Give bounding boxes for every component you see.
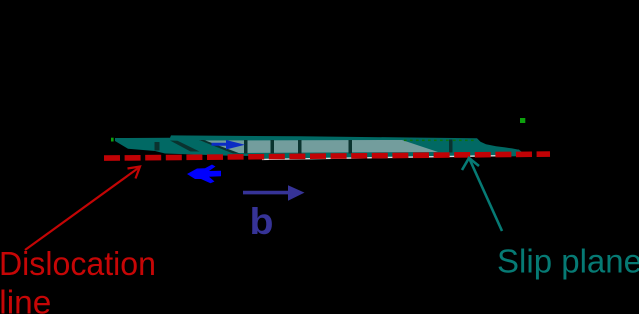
blue arrow on slip surface	[212, 140, 246, 150]
green marker square left	[111, 138, 114, 142]
small blue scribble arrow (points left)	[187, 165, 221, 184]
green marker dot upper right	[520, 118, 525, 123]
green dotted top edge	[404, 140, 474, 142]
svg-text:b: b	[250, 201, 274, 242]
plane separator 1	[244, 140, 248, 154]
plane separator 4	[349, 140, 353, 154]
plane separator 5	[449, 140, 453, 153]
slip plane dashed red line	[104, 154, 550, 158]
Burgers vector arrow	[243, 185, 305, 201]
slipped-surface light panels	[200, 140, 438, 153]
plane separator 3	[298, 140, 302, 154]
front bottom white edge	[262, 155, 500, 160]
slip plane pointer arrow (teal)	[462, 158, 502, 231]
svg-text:Dislocation: Dislocation	[0, 246, 156, 283]
svg-text:Slip plane: Slip plane	[497, 244, 639, 281]
svg-text:line: line	[0, 285, 51, 314]
dark vertical line left	[155, 142, 160, 151]
crystal front face strip	[262, 150, 521, 159]
left dark diagonal step	[199, 140, 240, 154]
dark diagonal in left teal	[170, 141, 200, 152]
plane separator 2	[271, 140, 275, 154]
dislocation pointer arrow (red)	[25, 167, 140, 251]
crystal block body	[115, 135, 522, 156]
